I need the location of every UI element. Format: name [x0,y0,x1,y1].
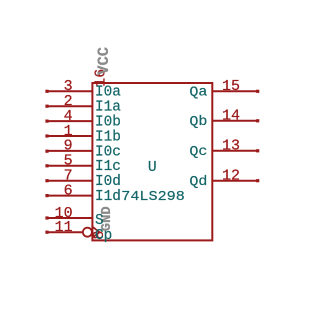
pin 15 Qa wire [212,90,259,93]
IC body U 74LS298 [92,83,212,240]
pin 1 I1b wire [45,134,92,137]
pin 10 S wire [45,216,92,219]
svg-text:Qc: Qc [189,144,207,160]
pin 2 I1a wire [45,105,92,108]
pin 11 clock mark [92,227,99,238]
svg-text:Qb: Qb [189,114,207,130]
svg-text:I0c: I0c [95,144,121,160]
pin 14 Qb wire [212,119,259,122]
pin 3 I0a wire [45,90,92,93]
pin 6 I1d wire [45,194,92,197]
pin 13 Qc wire [212,149,259,152]
svg-text:S: S [95,213,104,229]
svg-text:I1a: I1a [95,100,121,116]
pin 9 I0c wire [45,150,92,153]
pin 11 Cp wire [45,231,82,234]
svg-text:U: U [148,160,157,176]
svg-text:I1b: I1b [95,129,121,145]
svg-text:Qd: Qd [189,174,207,190]
svg-text:I1d: I1d [95,189,121,205]
pin 11 inversion bubble [83,228,92,237]
pin 7 I0d wire [45,179,92,182]
svg-text:14: 14 [222,108,240,125]
svg-text:Qa: Qa [189,85,208,101]
svg-text:I0d: I0d [95,174,121,190]
svg-text:15: 15 [222,78,240,95]
svg-text:I1c: I1c [95,159,121,175]
svg-text:11: 11 [55,219,73,236]
svg-text:6: 6 [64,182,73,199]
svg-text:13: 13 [222,138,240,155]
svg-text:I0b: I0b [95,115,121,131]
svg-text:Cp: Cp [95,228,112,244]
svg-text:12: 12 [222,168,240,185]
pin 12 Qd wire [212,179,259,182]
pin 5 I1c wire [45,164,92,167]
svg-text:VCC: VCC [95,47,113,75]
svg-text:74LS298: 74LS298 [121,189,185,205]
pin 4 I0b wire [45,120,92,123]
